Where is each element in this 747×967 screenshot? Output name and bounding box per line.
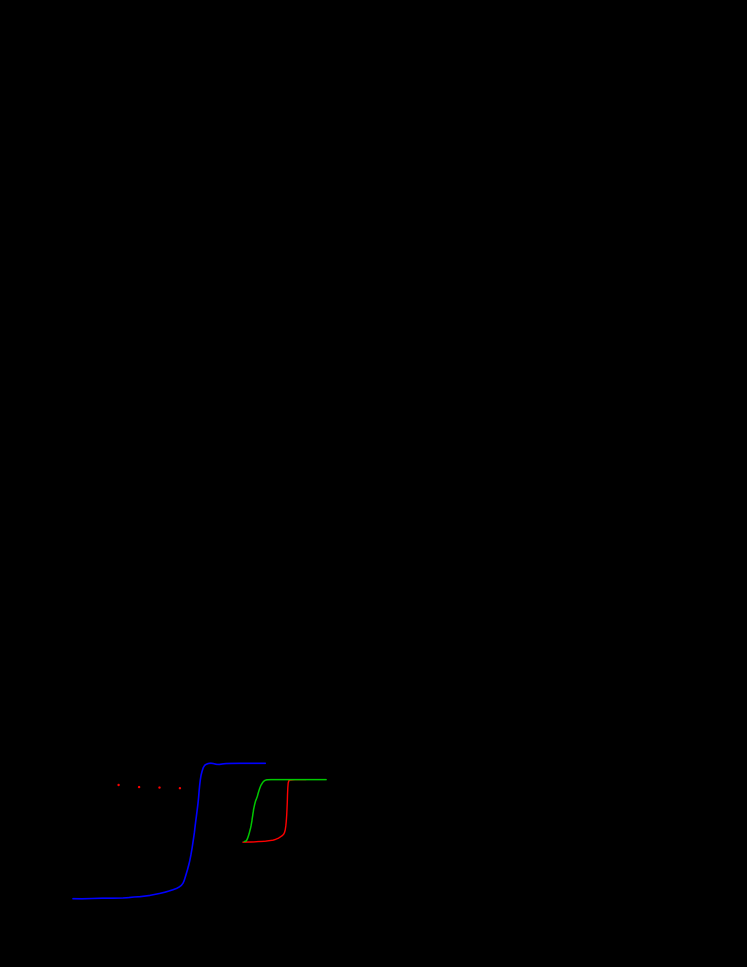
red marker dot 2 xyxy=(138,786,140,788)
green curve xyxy=(244,780,326,842)
red marker dot 3 xyxy=(158,786,160,788)
red marker dot 4 xyxy=(179,787,181,789)
blue curve xyxy=(73,763,265,899)
red marker dot 1 xyxy=(117,784,119,786)
red curve xyxy=(243,780,306,842)
